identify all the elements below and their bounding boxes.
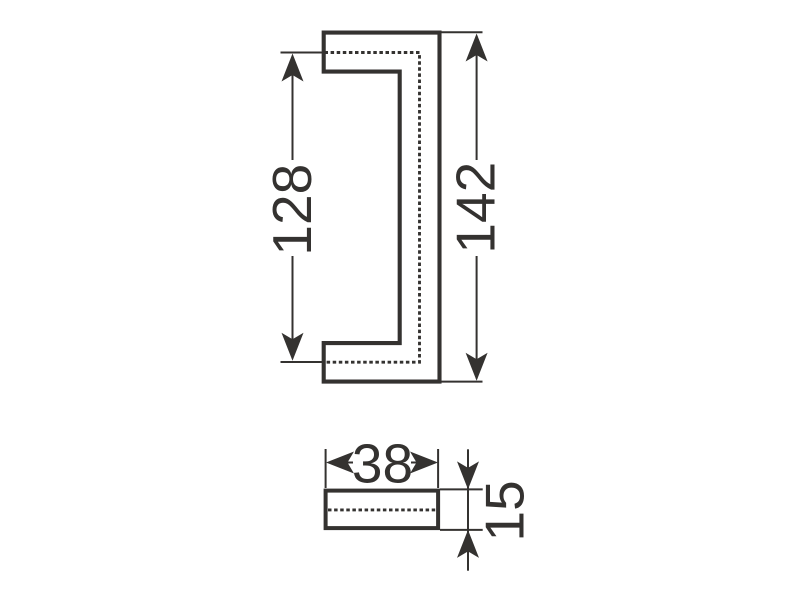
svg-text:15: 15	[474, 480, 536, 541]
svg-text:142: 142	[445, 162, 507, 254]
svg-text:128: 128	[261, 164, 323, 256]
svg-text:38: 38	[352, 433, 413, 495]
